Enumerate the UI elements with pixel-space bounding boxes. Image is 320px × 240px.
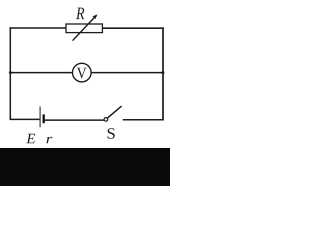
junction left node [9,71,12,74]
switch S lever [107,106,121,118]
voltmeter V [73,63,92,82]
junction right node [161,71,164,74]
wire right edge [162,27,164,120]
wire middle-left segment (to voltmeter) [10,72,73,74]
label R [76,8,84,20]
resistor R (rheostat body) [66,24,102,33]
wire bottom-left segment (to battery) [10,118,40,120]
wire top-left segment [10,27,67,29]
wire switch-to-right segment [123,119,164,121]
switch S pivot terminal [104,118,108,122]
black censor bar at bottom [0,148,170,186]
wire battery-to-switch segment [45,119,105,121]
battery E,r long plate [39,106,41,127]
wire left edge [9,27,11,120]
wire middle-right segment (from voltmeter) [91,72,164,74]
battery E,r short thick plate [43,114,45,123]
label E [26,134,35,143]
label r [47,137,53,143]
wire top-right segment [102,27,164,29]
rheostat arrow through R [73,14,98,40]
label S [108,128,115,139]
